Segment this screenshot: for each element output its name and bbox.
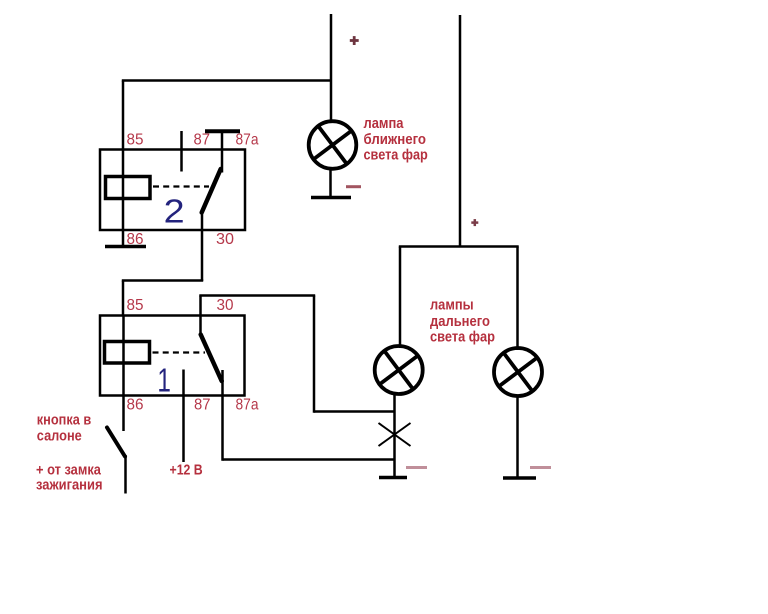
svg-text:2: 2 <box>164 192 185 229</box>
svg-text:+12 В: +12 В <box>170 463 203 479</box>
svg-text:ближнего: ближнего <box>364 132 427 148</box>
svg-text:87: 87 <box>194 397 211 414</box>
svg-text:света фар: света фар <box>430 330 495 346</box>
svg-text:30: 30 <box>216 231 234 248</box>
svg-text:дальнего: дальнего <box>430 314 490 330</box>
svg-text:света фар: света фар <box>364 148 428 164</box>
svg-text:87a: 87a <box>236 397 259 414</box>
svg-text:салоне: салоне <box>37 429 82 445</box>
svg-text:лампа: лампа <box>364 116 405 132</box>
svg-text:лампы: лампы <box>430 298 474 314</box>
svg-text:86: 86 <box>127 397 144 414</box>
svg-text:86: 86 <box>127 231 144 248</box>
svg-text:1: 1 <box>157 362 171 399</box>
svg-text:87a: 87a <box>236 132 259 149</box>
svg-text:30: 30 <box>217 297 234 314</box>
svg-text:зажигания: зажигания <box>36 478 103 494</box>
svg-text:+ от замка: + от замка <box>36 463 102 479</box>
svg-text:85: 85 <box>127 297 144 314</box>
svg-text:85: 85 <box>127 132 144 149</box>
svg-text:кнопка в: кнопка в <box>37 413 91 429</box>
svg-text:87: 87 <box>194 132 211 149</box>
